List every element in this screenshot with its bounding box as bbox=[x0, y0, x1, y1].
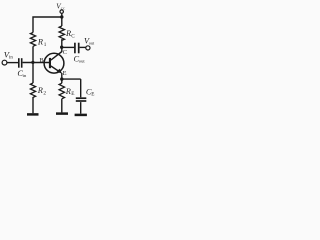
svg-text:R: R bbox=[37, 86, 43, 95]
svg-text:C: C bbox=[71, 33, 75, 39]
svg-text:CC: CC bbox=[61, 6, 66, 10]
svg-text:E: E bbox=[71, 91, 74, 97]
svg-text:R: R bbox=[37, 37, 43, 46]
svg-text:out: out bbox=[89, 41, 95, 46]
svg-text:C: C bbox=[63, 49, 67, 56]
svg-text:R: R bbox=[65, 29, 71, 38]
svg-text:E: E bbox=[91, 92, 94, 98]
svg-text:E: E bbox=[63, 70, 67, 77]
svg-text:1: 1 bbox=[44, 42, 47, 48]
svg-text:R: R bbox=[65, 87, 71, 96]
svg-text:out: out bbox=[79, 58, 86, 63]
svg-text:in: in bbox=[9, 55, 13, 60]
svg-text:B: B bbox=[39, 57, 44, 64]
svg-text:2: 2 bbox=[43, 91, 46, 97]
